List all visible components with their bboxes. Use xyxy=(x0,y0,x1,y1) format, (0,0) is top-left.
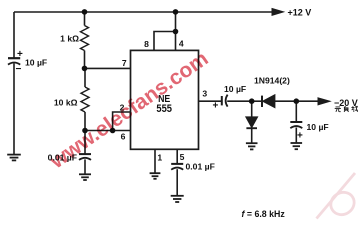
svg-text:1: 1 xyxy=(157,153,162,163)
wire pin2 xyxy=(113,112,131,131)
ground for D2 xyxy=(246,143,258,149)
svg-text:f = 6.8 kHz: f = 6.8 kHz xyxy=(242,209,286,219)
watermark big letter bottom right xyxy=(317,173,359,219)
resistor R1 1k xyxy=(81,12,89,68)
svg-text:10 µF: 10 µF xyxy=(25,58,47,68)
node B output xyxy=(294,98,300,104)
capacitor C4 10uF output xyxy=(290,101,302,142)
svg-text:7: 7 xyxy=(122,58,127,68)
node rail-R1 xyxy=(82,9,88,15)
label output no-load chinese (drawn strokes: wu fu zai) xyxy=(335,106,358,112)
capacitor C5 0.01uF pin5 xyxy=(171,149,183,195)
svg-text:−: − xyxy=(16,64,22,75)
svg-text:+: + xyxy=(17,49,23,60)
wire left branch upper xyxy=(13,12,15,58)
svg-text:8: 8 xyxy=(144,39,149,49)
node pin8-pin4 xyxy=(173,29,179,35)
wire pin6 xyxy=(85,130,131,132)
wire pins 8 and 4 to rail xyxy=(154,32,176,51)
svg-text:3: 3 xyxy=(202,89,207,99)
svg-text:555: 555 xyxy=(156,103,172,115)
capacitor C3 10uF series xyxy=(222,95,252,107)
capacitor C1 10uF plates xyxy=(8,58,20,64)
ground for C4 xyxy=(291,143,303,149)
wire pin7 xyxy=(85,67,131,69)
svg-text:1 kΩ: 1 kΩ xyxy=(60,34,79,44)
node R1-R2 pin7 xyxy=(82,66,88,72)
supply arrow +12V xyxy=(272,9,284,16)
node R2-C2 pin6 xyxy=(82,128,88,134)
svg-text:+: + xyxy=(297,131,303,142)
svg-text:+12 V: +12 V xyxy=(288,8,312,18)
svg-text:0.01 µF: 0.01 µF xyxy=(186,162,215,172)
ground left xyxy=(7,155,21,161)
svg-text:5: 5 xyxy=(180,152,185,162)
svg-text:10 kΩ: 10 kΩ xyxy=(54,98,78,108)
svg-text:10 µF: 10 µF xyxy=(224,84,246,94)
output arrow xyxy=(318,98,330,105)
op-amp/timer U1 NE555 box xyxy=(131,50,199,149)
node A cap-diodes xyxy=(249,98,255,104)
ground for C2 xyxy=(79,174,91,180)
wire left branch lower xyxy=(13,64,15,155)
svg-text:+: + xyxy=(213,101,219,112)
svg-text:6: 6 xyxy=(121,132,126,142)
svg-text:4: 4 xyxy=(179,38,184,48)
resistor R2 10k xyxy=(81,68,89,130)
diode D1 series 1N914 xyxy=(252,95,318,107)
wire top supply rail xyxy=(14,11,273,13)
node pin2 branch xyxy=(110,128,116,134)
svg-text:1N914(2): 1N914(2) xyxy=(254,76,290,86)
capacitor C2 0.01uF left xyxy=(79,131,91,174)
ground pin5 xyxy=(171,196,184,202)
node rail-pin4 xyxy=(173,9,179,15)
svg-text:10 µF: 10 µF xyxy=(307,122,329,132)
wire pin3 xyxy=(199,100,222,102)
diode D2 shunt 1N914 xyxy=(246,101,257,142)
ground pin1 xyxy=(150,173,161,179)
wire pin1 xyxy=(154,149,156,172)
